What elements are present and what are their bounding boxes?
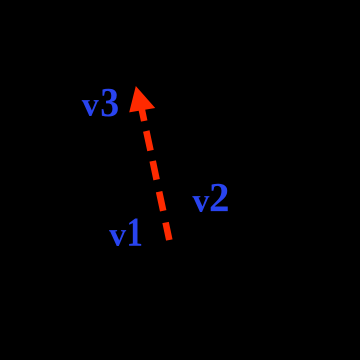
- arrowhead: [129, 86, 155, 112]
- svg-text:v: v: [109, 217, 126, 254]
- dash 3: [153, 161, 157, 180]
- svg-text:v: v: [82, 87, 99, 124]
- dash 4: [159, 192, 163, 211]
- svg-text:v: v: [192, 183, 209, 220]
- svg-text:3: 3: [100, 79, 119, 125]
- vector arrow shaft (red dashed), dash 1 (top stub under head): [141, 108, 169, 240]
- dash 5 (tail): [166, 223, 170, 241]
- svg-text:2: 2: [209, 174, 230, 220]
- svg-text:1: 1: [127, 210, 143, 255]
- dash 2: [146, 131, 150, 151]
